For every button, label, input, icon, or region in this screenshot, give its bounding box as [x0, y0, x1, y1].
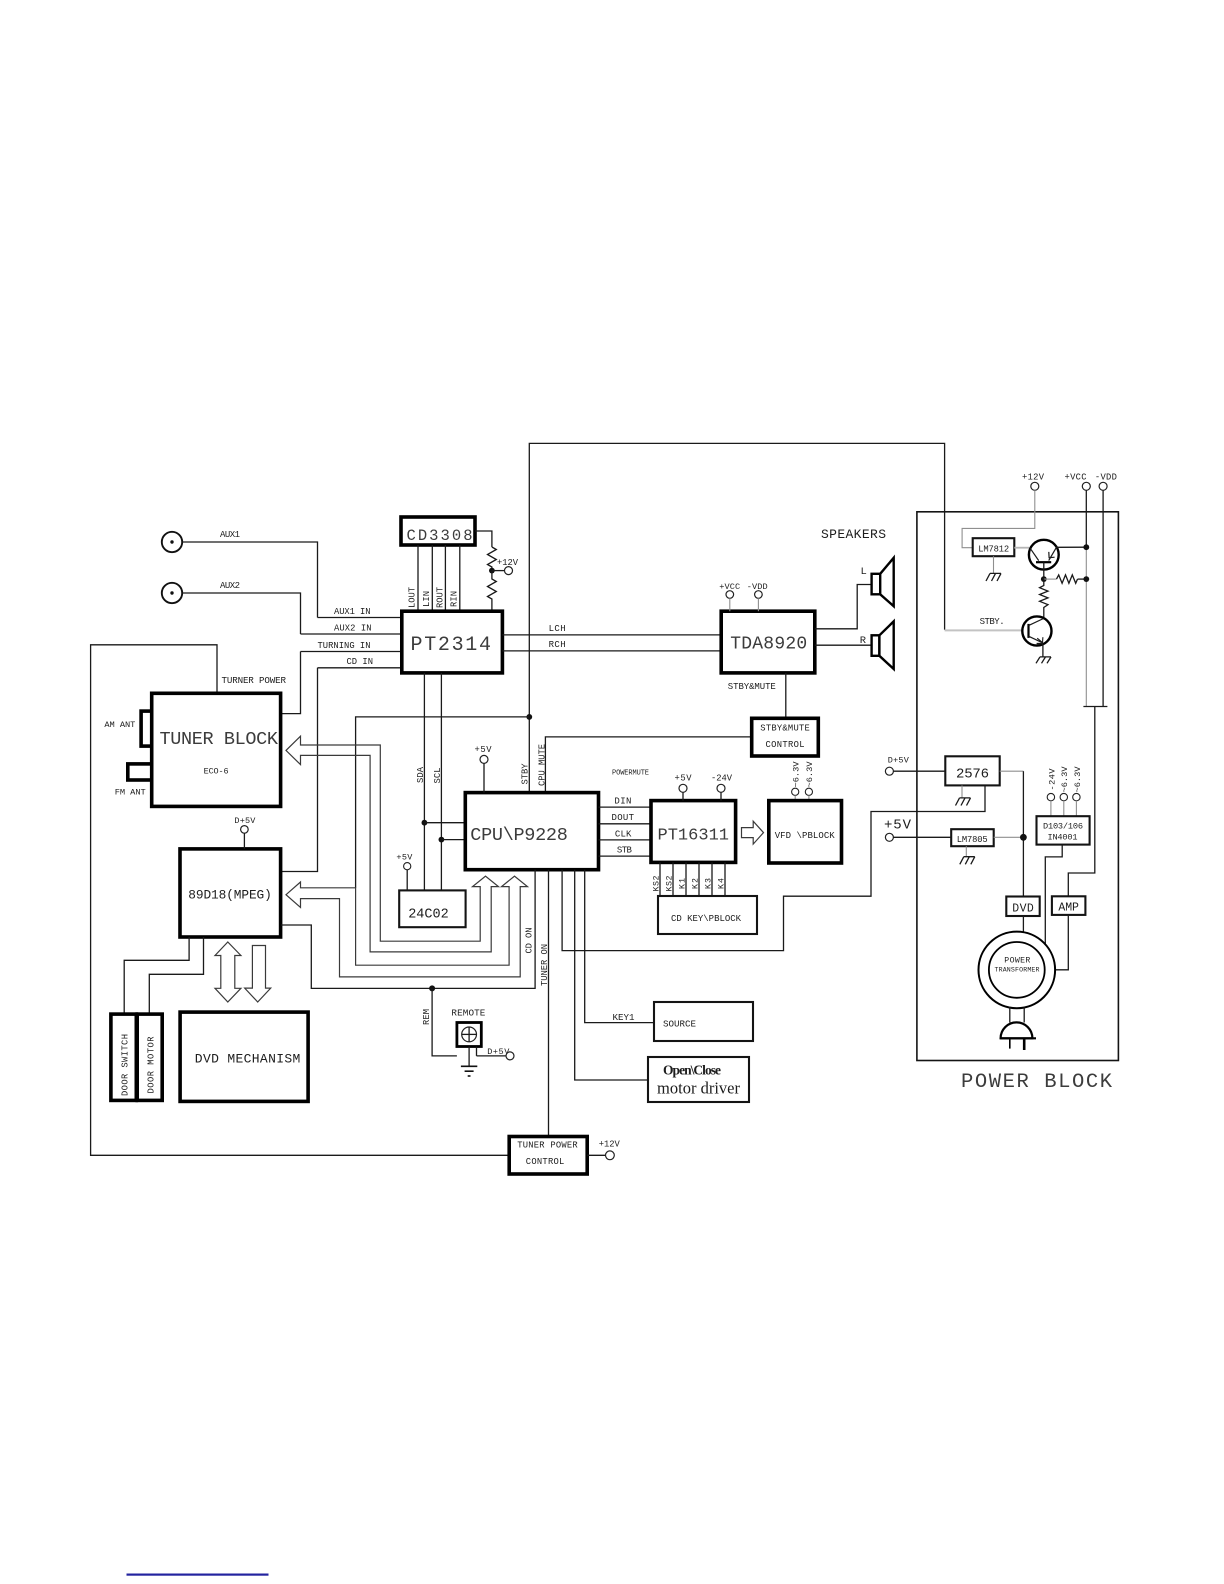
svg-text:~6.3V: ~6.3V: [1073, 766, 1083, 793]
svg-text:motor driver: motor driver: [657, 1079, 741, 1098]
svg-text:89D18(MPEG): 89D18(MPEG): [188, 888, 271, 903]
pin TURNING IN: [301, 641, 402, 652]
node D+5V 2576: [885, 756, 945, 776]
node 6.3V a: [792, 761, 802, 801]
svg-text:CONTROL: CONTROL: [526, 1157, 565, 1167]
connector AUX1: [162, 530, 240, 552]
svg-text:FM ANT: FM ANT: [115, 788, 146, 798]
power +5V 24C02: [396, 853, 413, 891]
transformer POWER TRANSFORMER: [979, 932, 1056, 1009]
pin CD IN: [318, 657, 402, 668]
svg-text:STBY: STBY: [521, 763, 531, 785]
wire AMP to transformer: [1055, 915, 1068, 970]
junction SCL to CPU: [439, 837, 466, 843]
svg-text:TURNER POWER: TURNER POWER: [222, 675, 287, 686]
block CD3308: [401, 517, 475, 545]
svg-text:L: L: [861, 566, 867, 578]
footer rule: [127, 1574, 269, 1576]
block 2576: [945, 756, 999, 785]
svg-text:D+5V: D+5V: [234, 816, 256, 826]
block LM7805: [951, 829, 994, 846]
svg-text:REM: REM: [422, 1009, 432, 1025]
wire door motor: [149, 937, 203, 1014]
wire left rail: [91, 645, 510, 1156]
pin DOUT: [599, 813, 652, 824]
pin KS2 b: [666, 862, 675, 896]
wire CD3308 to resistor: [475, 531, 492, 547]
svg-text:STBY&MUTE: STBY&MUTE: [760, 724, 810, 734]
svg-text:-VDD: -VDD: [1095, 473, 1117, 483]
svg-text:DVD: DVD: [1012, 903, 1034, 916]
wire CPU to 2576: [562, 785, 985, 950]
wire -VDD rail: [1102, 490, 1104, 706]
svg-text:VFD \PBLOCK: VFD \PBLOCK: [775, 831, 836, 841]
wire 2576 output: [1000, 771, 1024, 896]
node +12V tuner power: [587, 1140, 620, 1160]
block CPU P9228: [465, 793, 598, 870]
block SOURCE: [654, 1002, 753, 1041]
svg-text:LCH: LCH: [549, 624, 566, 634]
wire CD IN from 89D18: [281, 668, 318, 872]
svg-text:K3: K3: [705, 878, 714, 889]
svg-text:RCH: RCH: [549, 640, 566, 650]
wire LCH: [502, 624, 721, 635]
junction LM7805 output: [994, 834, 1027, 841]
svg-text:K4: K4: [718, 878, 727, 889]
wire rail merge to AMP: [1068, 707, 1107, 897]
svg-text:CONTROL: CONTROL: [766, 740, 805, 750]
pin LOUT: [408, 545, 419, 611]
wire KEY1 to SOURCE: [585, 870, 654, 1023]
node 6.3V b: [805, 761, 815, 801]
svg-text:LM7812: LM7812: [978, 545, 1009, 555]
pin AUX2 IN: [301, 624, 402, 635]
power -VDD input: [1095, 473, 1117, 491]
block DOOR MOTOR: [137, 1014, 162, 1100]
wire TUNER ON: [540, 870, 550, 1137]
svg-text:R: R: [860, 635, 867, 647]
svg-text:LOUT: LOUT: [408, 587, 418, 608]
svg-text:AMP: AMP: [1058, 902, 1079, 915]
svg-text:ECO-6: ECO-6: [204, 767, 229, 777]
bus arrow CPU to 89D18: [286, 876, 528, 977]
svg-text:Open\Close: Open\Close: [663, 1063, 721, 1078]
svg-text:SDA: SDA: [416, 766, 426, 783]
wire +VCC rail: [1085, 490, 1087, 706]
resistor R1: [488, 547, 497, 571]
svg-text:DVD MECHANISM: DVD MECHANISM: [195, 1052, 300, 1067]
svg-text:POWER BLOCK: POWER BLOCK: [961, 1071, 1113, 1094]
ground 2576: [956, 785, 971, 805]
svg-text:TUNER ON: TUNER ON: [540, 944, 550, 986]
block LM7812: [973, 538, 1015, 556]
svg-text:+5V: +5V: [675, 774, 693, 784]
power -VDD TDA: [747, 582, 768, 611]
svg-text:CPU MUTE: CPU MUTE: [537, 744, 547, 786]
power +5V CPU: [475, 745, 493, 793]
sensor REMOTE: [451, 1008, 485, 1047]
transistor Q1 pass: [1014, 540, 1058, 579]
svg-text:+12V: +12V: [497, 558, 519, 568]
svg-text:LIN: LIN: [422, 591, 432, 607]
svg-text:AUX1: AUX1: [220, 530, 240, 540]
wire +12V to LM7812: [962, 490, 1035, 547]
pin ROUT: [435, 545, 445, 611]
svg-text:-24V: -24V: [711, 774, 733, 784]
antenna AM ANT: [104, 711, 151, 746]
block DVD MECHANISM: [180, 1012, 308, 1101]
svg-text:KS2: KS2: [666, 875, 675, 891]
svg-text:KS2: KS2: [653, 875, 662, 891]
pin RIN: [450, 545, 460, 611]
svg-text:CLK: CLK: [615, 829, 632, 839]
pin K3: [705, 862, 714, 896]
svg-text:2576: 2576: [956, 767, 989, 783]
svg-text:D+5V: D+5V: [888, 756, 910, 766]
block CD KEY PBLOCK: [658, 896, 757, 934]
svg-text:SPEAKERS: SPEAKERS: [821, 527, 886, 542]
wire Q1 collector to +VCC: [1056, 544, 1089, 550]
block TDA8920: [721, 611, 815, 673]
junction SDA to CPU: [422, 820, 466, 826]
wire remote D+5V pin: [477, 1047, 515, 1060]
svg-text:+5V: +5V: [475, 745, 493, 755]
pin DIN: [599, 797, 652, 808]
svg-text:~6.3V: ~6.3V: [805, 761, 815, 788]
antenna FM ANT: [115, 764, 152, 798]
wire TURNING IN from tuner: [281, 652, 301, 714]
resistor R4 vertical: [1040, 579, 1048, 618]
wire remote ground pin: [468, 1047, 470, 1067]
block POWER BLOCK outline: [917, 512, 1119, 1061]
wire SDA vertical: [416, 673, 426, 891]
power +5V PT16311: [675, 774, 693, 801]
pin CLK: [599, 829, 652, 840]
pin K2: [692, 862, 701, 896]
node -24V transformer: [1047, 768, 1057, 817]
wire RCH: [502, 640, 721, 651]
block STBY&MUTE CONTROL: [752, 718, 819, 756]
svg-text:+12V: +12V: [599, 1140, 621, 1150]
ground remote: [461, 1066, 477, 1076]
ground LM7812: [986, 556, 1001, 581]
wire D103 to transformer: [1045, 845, 1062, 944]
svg-text:AUX2 IN: AUX2 IN: [334, 624, 372, 634]
svg-text:DIN: DIN: [614, 797, 631, 807]
resistor R2: [488, 571, 497, 612]
pin KS2 a: [653, 862, 662, 896]
svg-text:SOURCE: SOURCE: [663, 1019, 696, 1030]
block Open Close motor driver: [648, 1057, 749, 1102]
svg-text:REMOTE: REMOTE: [451, 1008, 485, 1019]
resistor R3 horizontal: [1044, 575, 1089, 583]
pin K4: [718, 862, 727, 896]
svg-text:TDA8920: TDA8920: [730, 635, 807, 655]
block AMP: [1052, 896, 1086, 915]
wire STBY long route to power block: [529, 443, 944, 792]
svg-text:STBY.: STBY.: [980, 617, 1005, 627]
svg-text:DOOR MOTOR: DOOR MOTOR: [147, 1036, 157, 1094]
svg-text:TURNING IN: TURNING IN: [318, 641, 371, 651]
junction STBY branch: [356, 714, 533, 888]
arrow PT16311 to VFD: [742, 821, 764, 844]
svg-text:TUNER POWER: TUNER POWER: [517, 1141, 578, 1151]
svg-text:CD IN: CD IN: [347, 657, 374, 667]
svg-text:CD ON: CD ON: [525, 928, 535, 954]
wire door switch: [124, 937, 189, 1014]
svg-text:SCL: SCL: [433, 768, 443, 784]
transistor Q2 standby: [1022, 616, 1051, 645]
svg-text:-24V: -24V: [1047, 768, 1057, 791]
svg-text:CD KEY\PBLOCK: CD KEY\PBLOCK: [671, 914, 742, 924]
power +12V input: [1022, 473, 1045, 491]
block D103/106 IN4001: [1037, 816, 1090, 844]
svg-text:+12V: +12V: [1022, 473, 1045, 483]
svg-text:POWERMUTE: POWERMUTE: [612, 770, 649, 778]
node 6.3V transformer a: [1060, 766, 1070, 817]
power +VCC input: [1065, 473, 1091, 491]
wire CPU MUTE: [537, 737, 751, 793]
wire DVD to transformer: [1022, 916, 1024, 933]
wire CPU to motor driver: [575, 870, 648, 1080]
svg-text:LM7805: LM7805: [957, 835, 988, 845]
node 6.3V transformer b: [1073, 766, 1083, 817]
svg-text:~6.3V: ~6.3V: [792, 761, 802, 788]
block VFD PBLOCK: [769, 801, 842, 863]
pin STB: [599, 846, 652, 857]
power D+5V for 89D18: [234, 816, 256, 849]
wire Q2 emitter to ground: [1036, 644, 1051, 664]
svg-text:AUX1 IN: AUX1 IN: [334, 607, 371, 617]
block DVD: [1006, 897, 1039, 917]
svg-text:K1: K1: [679, 878, 688, 889]
speaker R: [860, 621, 894, 669]
block PT16311: [651, 801, 736, 863]
svg-text:IN4001: IN4001: [1048, 833, 1078, 843]
svg-text:+VCC: +VCC: [1065, 473, 1087, 483]
svg-text:~6.3V: ~6.3V: [1060, 766, 1070, 793]
svg-text:+5V: +5V: [396, 853, 413, 863]
svg-text:STBY&MUTE: STBY&MUTE: [728, 682, 776, 692]
wire SCL vertical: [433, 673, 443, 891]
block TUNER POWER CONTROL: [509, 1137, 587, 1175]
svg-text:AM ANT: AM ANT: [104, 720, 135, 730]
block 24C02: [399, 890, 465, 927]
svg-text:KEY1: KEY1: [613, 1012, 635, 1023]
svg-text:AUX2: AUX2: [220, 581, 240, 591]
svg-text:TUNER BLOCK: TUNER BLOCK: [160, 729, 279, 750]
power +VCC TDA: [719, 582, 740, 611]
junction REM branch: [422, 985, 457, 1056]
svg-text:D103/106: D103/106: [1043, 822, 1083, 832]
svg-text:K2: K2: [692, 878, 701, 889]
pin AUX1 IN: [318, 607, 402, 618]
wire AUX2 to PT2314: [182, 593, 300, 634]
block DOOR SWITCH: [111, 1014, 136, 1100]
bus arrow down to DVD mechanism: [245, 946, 271, 1003]
svg-text:DOOR SWITCH: DOOR SWITCH: [121, 1034, 131, 1096]
speaker L: [861, 558, 894, 606]
svg-text:TRANSFORMER: TRANSFORMER: [995, 967, 1040, 974]
power -24V PT16311: [711, 774, 733, 801]
bus arrow 89D18 to DVD mechanism (double headed): [215, 942, 241, 1002]
connector AUX2: [162, 581, 240, 603]
svg-text:CPU\P9228: CPU\P9228: [470, 825, 568, 846]
svg-text:DOUT: DOUT: [612, 813, 635, 823]
svg-text:+5V: +5V: [884, 818, 912, 834]
svg-text:PT16311: PT16311: [658, 827, 730, 846]
svg-text:STB: STB: [617, 846, 633, 856]
pin LIN: [422, 545, 432, 611]
wire R channel to speaker: [815, 644, 872, 646]
block TUNER BLOCK: [152, 693, 281, 806]
svg-text:RIN: RIN: [450, 591, 460, 607]
junction Q1 base node: [1041, 576, 1047, 582]
wire STBY base feed: [945, 629, 1023, 631]
wire L channel to speaker: [815, 585, 872, 629]
node +5V LM7805: [884, 818, 951, 842]
pin K1: [679, 862, 688, 896]
svg-text:24C02: 24C02: [408, 908, 449, 923]
bus arrow CPU to TUNER BLOCK: [286, 736, 499, 952]
wire CD ON: [281, 870, 535, 989]
node +12V: [489, 558, 519, 575]
svg-text:POWER: POWER: [1004, 957, 1030, 966]
plug mains: [1000, 1007, 1036, 1051]
block 89D18 MPEG: [180, 849, 281, 937]
ground LM7805: [960, 846, 975, 864]
svg-text:ROUT: ROUT: [435, 587, 445, 608]
wire TDA to stby control: [785, 673, 787, 718]
block PT2314: [402, 611, 503, 673]
wire AUX1 to PT2314: [182, 542, 317, 618]
